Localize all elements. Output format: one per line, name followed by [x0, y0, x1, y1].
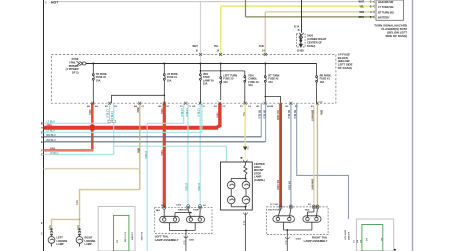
vertical wire labels below fuse block: [105, 108, 321, 192]
svg-text:D7 C306: D7 C306: [270, 204, 279, 206]
wire LT BLU pin E1 drop to row C: [113, 103, 115, 120]
svg-text:E: E: [41, 222, 43, 225]
svg-text:LT BLU: LT BLU: [50, 152, 59, 155]
svg-text:LT BLU: LT BLU: [110, 112, 112, 120]
wire LT BLU left lamp feed 1: [187, 103, 189, 207]
connector C410 at CHMSL: [243, 160, 247, 162]
svg-text:E1: E1: [115, 106, 118, 108]
right license lamp caption: [85, 237, 96, 246]
svg-text:(LOWER RIGHT: (LOWER RIGHT: [307, 37, 327, 41]
svg-text:10A: 10A: [248, 84, 253, 87]
svg-text:B: B: [370, 5, 372, 8]
wire WHT drop to fuse block: [199, 2, 201, 64]
left harness connector bus line: [43, 0, 45, 251]
svg-text:LT BLU: LT BLU: [185, 183, 187, 191]
svg-text:DK BLU: DK BLU: [287, 110, 289, 119]
wire DK BLU row S: [260, 103, 262, 137]
wire ORG elbow from fuse F4 pin: [216, 103, 220, 128]
wire BLK ground from top edge: [301, 0, 303, 33]
svg-text:S420: S420: [307, 34, 314, 38]
svg-text:C: C: [41, 153, 43, 157]
wire BRN/WHT right lamp feeds: [313, 107, 315, 207]
fusible link caption: [66, 57, 79, 75]
left tail lamp pin labels: [156, 209, 200, 212]
svg-text:C2: C2: [248, 106, 252, 108]
svg-text:R: R: [41, 121, 43, 125]
svg-text:ORG: ORG: [160, 109, 163, 115]
left tail lamp pin ovals: [163, 205, 202, 210]
svg-text:B1: B1: [105, 106, 109, 108]
right tail lamp bulb B: [303, 209, 321, 223]
svg-text:F1: F1: [180, 106, 183, 108]
pin labels on fuse block top edge: [193, 45, 266, 53]
svg-text:BRN: BRN: [76, 225, 78, 230]
svg-text:C2: C2: [223, 106, 227, 108]
svg-text:WHT: WHT: [193, 46, 199, 48]
svg-text:YEL: YEL: [359, 5, 364, 8]
svg-text:POWER: POWER: [69, 64, 79, 68]
svg-text:A8: A8: [116, 240, 119, 244]
svg-text:BRN/WHT: BRN/WHT: [311, 179, 314, 191]
svg-text:LT BLU: LT BLU: [47, 130, 56, 133]
svg-text:I-PNL: I-PNL: [69, 60, 76, 64]
svg-text:ORG: ORG: [215, 113, 218, 119]
svg-text:LT BLU: LT BLU: [185, 109, 187, 117]
wire BRN row F to junction: [44, 149, 94, 152]
left tail lamp bulb A: [160, 209, 180, 223]
svg-text:BRN: BRN: [75, 200, 77, 205]
left license lamp: [48, 231, 55, 246]
CHMSL ground exit BLK: [243, 213, 247, 215]
splice S420 caption: [307, 34, 327, 48]
svg-text:BRN: BRN: [136, 148, 138, 153]
svg-text:B2: B2: [286, 106, 290, 108]
left body harness gray box: [98, 207, 135, 251]
fuse F7 RR PARK: [316, 64, 318, 104]
svg-text:BRN: BRN: [48, 225, 50, 230]
pin labels on fuse block bottom edge: [87, 102, 323, 108]
wire DK BLU run to rear harness: [297, 103, 349, 219]
svg-text:RT TURN SIG: RT TURN SIG: [378, 11, 394, 14]
splice S420 dashed box: [297, 34, 306, 47]
svg-text:YEL: YEL: [246, 146, 249, 151]
svg-text:SIDE OF DASH): SIDE OF DASH): [385, 34, 407, 38]
fusible link F9 symbol: [77, 61, 87, 65]
svg-text:TAIL: TAIL: [305, 208, 310, 211]
svg-text:(CHMSL): (CHMSL): [254, 178, 265, 182]
svg-text:LT TURN SIG: LT TURN SIG: [378, 6, 394, 9]
svg-text:LAMP ASSEMBLY: LAMP ASSEMBLY: [304, 239, 328, 243]
wire ORG from top edge: [245, 0, 247, 17]
right body harness gray box: [356, 219, 393, 251]
wire jog fuse F6 to stop lamp pin: [265, 97, 280, 104]
svg-text:C2 WHT: C2 WHT: [131, 232, 133, 241]
left tail lamp dashed box: [155, 207, 212, 233]
CHMSL internal feed zigzag: [244, 162, 247, 178]
svg-text:OF DASH): OF DASH): [338, 66, 352, 70]
wire label ORG vertical: [88, 109, 313, 191]
left connector pin letters: [41, 121, 43, 156]
svg-text:DK BLU: DK BLU: [47, 139, 56, 142]
svg-text:FUSE: FUSE: [72, 57, 79, 61]
left frame harness green box: [114, 215, 129, 251]
CHMSL bulb wiring: [231, 178, 246, 210]
svg-text:A1 GRN: A1 GRN: [140, 232, 143, 241]
splice S420 internal terminals: [299, 34, 303, 47]
svg-text:LT BLU: LT BLU: [197, 183, 199, 191]
svg-text:ORG: ORG: [160, 150, 163, 156]
right tail lamp ground exit: [285, 237, 289, 239]
right tail lamp bulb A: [273, 209, 295, 223]
svg-text:A8: A8: [365, 238, 368, 242]
svg-text:DK GRN: DK GRN: [276, 111, 279, 121]
svg-text:G401: G401: [189, 239, 195, 242]
wire LT BLU pin B1 drop to row R: [109, 103, 111, 120]
svg-text:A1 WHT: A1 WHT: [347, 232, 350, 241]
right connector micro labels: [344, 230, 383, 244]
svg-text:TAIL: TAIL: [156, 209, 161, 212]
fuse F3 VEH STOP: [199, 64, 201, 104]
svg-text:B9: B9: [159, 106, 163, 108]
wire LT BLU feed CHMSL: [114, 146, 227, 162]
wire BRN row H faint: [44, 168, 140, 170]
svg-text:E4: E4: [308, 203, 311, 206]
wire TAN horizontal: [265, 11, 374, 13]
left row wire color labels: [47, 121, 59, 155]
wire BRN license branch: [52, 219, 80, 234]
svg-text:BLK: BLK: [242, 221, 244, 226]
svg-text:STOP: STOP: [193, 210, 199, 212]
svg-text:2A: 2A: [380, 238, 383, 241]
wire WHT hot feed (top horizontal): [58, 1, 375, 3]
wire DK GRN feed right tail lamp: [279, 103, 282, 207]
wire YEL drop: [220, 6, 222, 54]
svg-text:A8: A8: [87, 105, 91, 108]
wire DK BLU row G: [265, 103, 267, 142]
wire LT BLU jog to license/axle run: [147, 103, 184, 251]
svg-text:BATTERY: BATTERY: [378, 16, 390, 19]
svg-text:B: B: [196, 51, 198, 53]
svg-text:10A: 10A: [203, 83, 208, 86]
fuse F4 LEFT TURN: [220, 64, 222, 101]
svg-text:LT BLU: LT BLU: [180, 109, 182, 117]
svg-text:WHT 5C8: WHT 5C8: [344, 230, 346, 240]
wire YEL CHMSL feed: [244, 103, 246, 146]
svg-text:(1 POWER: (1 POWER: [66, 67, 79, 71]
wire ORG heavy bus row T: [44, 126, 219, 130]
wire fuse bus: [86, 63, 317, 65]
left tail lamp bulb B: [175, 209, 205, 223]
svg-text:10A: 10A: [320, 81, 325, 84]
wire TAN drop: [264, 12, 266, 55]
svg-text:BLK: BLK: [284, 241, 286, 246]
wire YEL turn feed horizontal: [221, 5, 375, 7]
svg-text:DK GRN: DK GRN: [276, 180, 279, 190]
svg-text:G402: G402: [296, 238, 302, 241]
right tail lamp pin ovals: [279, 205, 319, 209]
svg-text:HAZARD SW: HAZARD SW: [378, 1, 394, 4]
right tail lamp bottoms join: [284, 222, 312, 234]
svg-text:10A: 10A: [167, 79, 172, 82]
svg-text:T: T: [41, 126, 43, 130]
wire BRN license feed drop: [139, 103, 141, 189]
svg-text:D2: D2: [214, 106, 218, 108]
right frame harness green box: [362, 225, 383, 251]
svg-text:ORG: ORG: [88, 110, 91, 116]
svg-text:F3: F3: [240, 106, 243, 108]
center high mounted stop lamp box: [221, 162, 253, 210]
left connector micro labels: [116, 232, 144, 244]
connector C of flasher: pin brackets: [373, 1, 376, 19]
fuse F1 TR PARK: [92, 64, 94, 104]
svg-text:BLK: BLK: [183, 241, 185, 246]
pin symbols at fuse block bottom edge: [91, 53, 319, 105]
svg-text:10A: 10A: [268, 81, 273, 84]
flasher pin row labels: [378, 1, 394, 20]
svg-text:G: G: [41, 140, 43, 144]
svg-text:A8: A8: [203, 204, 207, 207]
svg-text:DK BLU: DK BLU: [293, 110, 295, 119]
svg-text:BRN: BRN: [319, 110, 321, 115]
flasher unit U1 box: [376, 0, 404, 20]
svg-text:C2: C2: [320, 102, 324, 104]
fuse F2 LR PARK: [163, 64, 165, 104]
svg-text:D1: D1: [167, 106, 171, 108]
wire LT BLU row E: [44, 103, 202, 132]
svg-text:C: C: [41, 233, 43, 236]
svg-text:LAMP: LAMP: [57, 243, 64, 246]
svg-text:LT BLU: LT BLU: [197, 109, 199, 117]
svg-text:ORG: ORG: [47, 124, 53, 127]
svg-text:A: A: [45, 1, 47, 5]
wire BRN license run: [80, 190, 140, 220]
fuse block caption: [338, 52, 353, 70]
svg-text:G420: G420: [297, 49, 304, 53]
wire DK BLU right lamp feed: [290, 103, 292, 207]
svg-text:BRN: BRN: [50, 148, 55, 151]
svg-text:C: C: [370, 1, 372, 4]
junction dots on bus: [92, 63, 266, 65]
svg-text:C1: C1: [142, 106, 146, 108]
svg-text:YEL: YEL: [242, 112, 244, 117]
svg-text:ORG: ORG: [359, 16, 365, 19]
left tail lamp bulb bottoms join: [170, 223, 196, 234]
left license lamp caption: [57, 237, 68, 246]
svg-text:B3: B3: [257, 106, 261, 108]
fuse F6 RT TURN: [264, 64, 266, 103]
wire jog fuse F2 to pin: [112, 95, 165, 103]
svg-text:BRN: BRN: [136, 108, 138, 113]
svg-text:A1 5C08B: A1 5C08B: [124, 232, 127, 243]
svg-text:F: F: [41, 148, 43, 152]
node arrow off-page YEL: [243, 147, 247, 151]
svg-text:F2: F2: [202, 106, 205, 108]
svg-text:S: S: [41, 135, 43, 139]
right page edge line: [412, 0, 414, 251]
svg-text:DK BLU: DK BLU: [262, 110, 264, 119]
left tail lamp ground exit: [184, 236, 188, 238]
svg-text:BRN/WHT: BRN/WHT: [310, 110, 312, 121]
svg-text:LT BLU: LT BLU: [105, 110, 107, 118]
svg-text:TAN: TAN: [359, 11, 364, 14]
svg-text:DK BLU: DK BLU: [287, 181, 290, 190]
svg-text:A9: A9: [95, 105, 99, 108]
wire ORG thick drop from pin A8: [91, 103, 94, 150]
wire ORG feed left tail lamp: [163, 103, 166, 207]
svg-text:C408: C408: [176, 203, 182, 206]
svg-text:WHT: WHT: [359, 1, 365, 4]
svg-text:10A: 10A: [223, 81, 228, 84]
svg-text:TAN: TAN: [259, 45, 264, 48]
svg-text:14: 14: [217, 50, 220, 53]
connector tick license feed: [51, 228, 53, 230]
svg-text:LAMP: LAMP: [85, 243, 92, 246]
wire color labels at flasher: [359, 1, 373, 19]
svg-text:E2: E2: [193, 106, 196, 108]
svg-text:C2: C2: [352, 240, 354, 244]
svg-text:E: E: [41, 130, 43, 134]
svg-text:LT BLU: LT BLU: [144, 151, 146, 159]
right tail lamp dashed box: [267, 207, 329, 235]
svg-text:OF 2): OF 2): [72, 71, 79, 75]
wire LT BLU left lamp feed 2: [199, 103, 201, 207]
svg-text:DASH): DASH): [307, 44, 315, 48]
svg-text:YEL: YEL: [214, 46, 219, 48]
right tail lamp pin labels: [268, 208, 310, 211]
right tail lamp pin marks: [279, 205, 319, 208]
svg-text:C1: C1: [188, 106, 192, 108]
node junction ORG: [90, 125, 94, 130]
svg-text:LAMP ASSEMBLY: LAMP ASSEMBLY: [155, 238, 179, 242]
svg-text:DK BLU: DK BLU: [47, 134, 56, 137]
svg-text:HOT: HOT: [51, 0, 59, 4]
svg-text:A5 A6: A5 A6: [267, 105, 274, 108]
fuse block dashed outline: [51, 55, 336, 104]
CHMSL caption: [254, 162, 265, 182]
wire ORG battery horizontal: [246, 16, 375, 18]
svg-text:10A: 10A: [96, 79, 101, 82]
svg-text:B: B: [298, 29, 300, 32]
fuse F5 VEH CHMSL: [244, 71, 246, 103]
right tail lamp caption: [304, 236, 328, 243]
CHMSL bulbs 2x2: [227, 181, 249, 204]
wire jog bus to F5: [200, 70, 244, 72]
flasher caption: [374, 24, 407, 38]
svg-text:CENTER OF: CENTER OF: [307, 40, 322, 44]
svg-text:DK BLU: DK BLU: [258, 110, 260, 119]
svg-text:TURN SIG: TURN SIG: [178, 210, 189, 212]
left tail lamp pin marks: [163, 206, 202, 209]
right license lamp: [76, 231, 83, 246]
